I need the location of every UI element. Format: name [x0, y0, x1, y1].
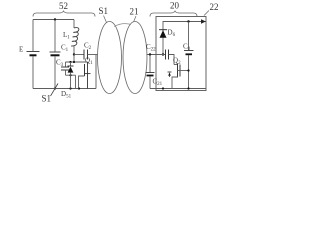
svg-text:20: 20	[170, 1, 180, 11]
wire L1 to node A	[73, 46, 75, 55]
node source rail junction	[78, 87, 80, 89]
capacitor C0	[188, 22, 190, 51]
battery E	[27, 51, 40, 53]
wire C1 branch top	[54, 20, 56, 52]
svg-text:C3: C3	[56, 59, 64, 69]
svg-text:C21: C21	[153, 78, 163, 88]
svg-text:Q1: Q1	[85, 57, 93, 67]
wire battery branch top	[32, 20, 34, 52]
wire bottom rail right	[150, 88, 206, 90]
svg-text:D51: D51	[61, 90, 72, 100]
node diode rail junction	[69, 87, 71, 89]
wire switch bottom bus	[66, 74, 76, 76]
capacitor C3 shunt	[65, 62, 67, 67]
current arrow on top rail	[201, 19, 206, 24]
brace 52	[33, 11, 95, 17]
diode D6	[159, 29, 167, 31]
svg-text:D6: D6	[168, 29, 176, 39]
svg-text:52: 52	[59, 1, 68, 11]
capacitor C1	[50, 51, 61, 53]
node Q2 gate lead junction	[187, 69, 189, 71]
svg-text:21: 21	[130, 7, 139, 17]
node C1 rail junction	[54, 87, 56, 89]
node diode branch rail junction	[162, 87, 164, 89]
wire bottom bus to rail	[75, 75, 77, 88]
label 22 leader	[204, 11, 209, 16]
inductor L1	[73, 20, 75, 29]
diode D21 small	[168, 71, 172, 73]
wire coil 51 return	[95, 55, 97, 89]
wire battery branch bottom	[32, 57, 34, 89]
wire top rail right	[163, 22, 206, 55]
wire bottom rail left	[33, 88, 96, 90]
wire node A to switch bus	[73, 55, 75, 63]
wire coil 21 to C22	[147, 54, 166, 56]
coil 51	[98, 22, 122, 94]
node coil 21 junction	[149, 53, 151, 55]
svg-text:C1: C1	[61, 44, 69, 54]
node C0 rail junction	[187, 87, 189, 89]
wire top rail left	[33, 19, 74, 21]
transistor Q2	[174, 64, 178, 66]
svg-text:L1: L1	[63, 31, 70, 41]
wire switch top bus	[66, 61, 88, 63]
brace 20	[150, 11, 197, 17]
wire C2 to coil 51	[88, 54, 98, 56]
svg-text:C22: C22	[146, 43, 156, 53]
node A	[73, 53, 75, 55]
node top rail junction	[54, 18, 56, 20]
svg-text:S1: S1	[42, 94, 52, 104]
diode D51 body	[70, 62, 72, 66]
label 21 leader	[134, 16, 137, 22]
svg-text:E: E	[19, 46, 23, 54]
svg-text:C2: C2	[84, 42, 92, 52]
node A to bus junction	[73, 61, 75, 63]
svg-text:S1: S1	[99, 6, 109, 16]
svg-text:22: 22	[210, 2, 219, 12]
coupling arc	[114, 24, 131, 27]
box 22	[156, 17, 206, 91]
label S1 coil leader	[104, 16, 107, 23]
transistor Q1	[87, 62, 89, 89]
coil 21	[123, 22, 147, 94]
label S1 leader	[51, 84, 59, 97]
node diode wire junction	[162, 53, 164, 55]
wire C22 to Q2	[169, 55, 175, 65]
node C0 top rail junction	[187, 20, 189, 22]
capacitor C22	[165, 50, 167, 60]
node bottom bus junction	[69, 74, 71, 76]
node diode bus junction	[69, 61, 71, 63]
capacitor C21	[149, 55, 151, 73]
wire node A to C2	[74, 54, 84, 56]
capacitor C2	[83, 50, 85, 60]
wire C1 branch bottom	[54, 57, 56, 89]
